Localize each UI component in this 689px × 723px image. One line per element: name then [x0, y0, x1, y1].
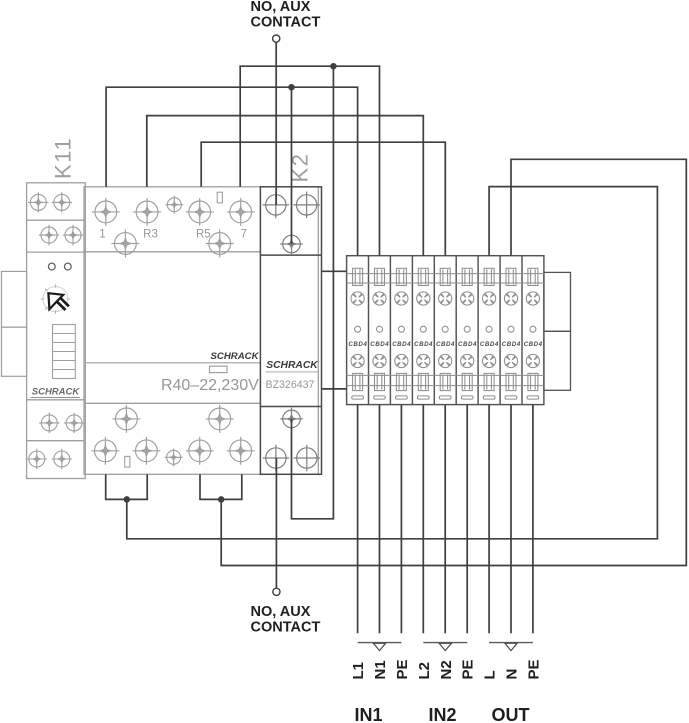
svg-text:7: 7: [241, 229, 247, 241]
wire: net L1 rail: [106, 87, 358, 256]
svg-text:CBD4: CBD4: [480, 341, 499, 348]
svg-text:L: L: [482, 670, 499, 679]
label: bottom NO, AUX CONTACT: [251, 604, 321, 636]
svg-text:1: 1: [99, 229, 105, 241]
contactor bottom terminal screws row 3: [112, 405, 233, 433]
wire: branch from L1 rail to K2 coil A1: [291, 87, 293, 244]
K11 terminal screws row 1: [28, 192, 72, 212]
contactor top small screw: [165, 196, 183, 214]
svg-text:L2: L2: [416, 662, 433, 680]
svg-text:CBD4: CBD4: [502, 341, 521, 348]
wire: terminal L to field: [488, 405, 490, 634]
K11 indicator window stack: [53, 325, 76, 379]
contactor bottom clip mark: [125, 456, 130, 467]
terminal block CBD4 #8 internals: [500, 268, 522, 399]
svg-text:OUT: OUT: [492, 705, 530, 723]
svg-text:CBD4: CBD4: [348, 341, 367, 348]
svg-text:PE: PE: [394, 659, 411, 679]
K2 label separator line: [266, 371, 319, 373]
terminal block CBD4 #7 internals: [478, 268, 500, 399]
svg-text:L1: L1: [350, 662, 367, 680]
svg-text:NO, AUX: NO, AUX: [251, 0, 311, 15]
wire: K2 to terminal X1-1 lower: [322, 388, 347, 390]
svg-text:PE: PE: [460, 659, 477, 679]
K11 terminal screws row 4: [27, 449, 72, 469]
wire: terminal PE3 to field: [532, 405, 534, 634]
junction on N1 rail: [331, 64, 336, 69]
wire: terminal N to field: [510, 405, 512, 634]
K2 bottom terminal screws: [263, 445, 320, 472]
junction on stub 2-4: [124, 497, 129, 502]
wire: net N2 rail: [201, 142, 445, 256]
terminal block CBD4 #6 internals: [456, 268, 478, 399]
svg-text:N: N: [504, 669, 521, 680]
node: top NO aux contact terminal: [273, 35, 280, 42]
wire: terminal PE1 to field: [400, 405, 402, 634]
terminal block CBD4 #1 internals: [347, 268, 369, 399]
wire: terminal N1 to field: [379, 405, 381, 634]
cable arrow 1: [373, 643, 385, 650]
cable arrow 3: [505, 643, 517, 650]
svg-text:PE: PE: [525, 659, 542, 679]
svg-text:SCHRACK: SCHRACK: [32, 387, 81, 398]
contactor top clip mark: [217, 192, 222, 203]
svg-text:CBD4: CBD4: [524, 341, 543, 348]
terminal assembly end brackets (right): [544, 272, 571, 390]
terminal block CBD4 #9 internals: [522, 268, 544, 399]
K11 SCHRACK brand label: [31, 387, 81, 398]
svg-text:CBD4: CBD4: [436, 341, 455, 348]
K2 upper coil screw: [280, 233, 303, 256]
cable group tick 1: [358, 642, 402, 644]
terminal block CBD4 #3 internals: [390, 268, 412, 399]
contactor top terminal screws row 1: [92, 198, 255, 226]
svg-text:CONTACT: CONTACT: [251, 15, 321, 31]
K11 manual actuator cursor icon: [41, 284, 71, 314]
svg-text:CONTACT: CONTACT: [251, 620, 321, 636]
wire: output L loop (inner right): [127, 187, 658, 539]
wire: output N loop (outer right): [221, 159, 686, 565]
wire: net L2 rail: [147, 116, 424, 256]
cable arrow 2: [439, 643, 451, 650]
wire: terminal L2 to field: [422, 405, 424, 634]
auxiliary contact module K11 body: [27, 183, 86, 479]
svg-text:R3: R3: [143, 229, 158, 241]
contactor label separator line: [86, 362, 260, 364]
K11 DIN rail tabs (left): [2, 271, 27, 376]
svg-text:BZ326437: BZ326437: [266, 379, 315, 391]
K2 top terminal screws: [263, 192, 320, 219]
terminal block CBD4 #2 internals: [369, 268, 391, 399]
cable group tick 2: [423, 642, 467, 644]
contactor top terminal screws row 2: [111, 230, 233, 258]
contactor small label box: [210, 366, 228, 372]
wire: contactor bottom jumper stub 2-4: [106, 474, 148, 499]
svg-text:R5: R5: [196, 229, 211, 241]
contactor K1 (R40-22,230V) body: [84, 187, 318, 475]
wire: branch from N1 rail down to K2 aux loop: [292, 66, 334, 519]
svg-text:R40–22,230V: R40–22,230V: [161, 377, 259, 394]
terminal block CBD4 #5 internals: [434, 268, 456, 399]
label: top NO, AUX CONTACT: [251, 0, 321, 31]
wire: K2 terminal 14 to bottom aux contact: [275, 458, 277, 588]
K11 terminal screws row 3: [39, 413, 84, 433]
svg-text:N1: N1: [372, 660, 389, 679]
svg-text:N2: N2: [438, 660, 455, 679]
wire: terminal N2 to field: [444, 405, 446, 634]
K11 terminal screws row 2: [39, 225, 83, 245]
svg-text:SCHRACK: SCHRACK: [266, 360, 319, 371]
svg-text:CBD4: CBD4: [392, 341, 411, 348]
K2 lower coil screw: [280, 408, 303, 431]
svg-text:CBD4: CBD4: [370, 341, 389, 348]
contactor bottom small screw: [165, 448, 183, 466]
wire: net N1-coil top rail: [240, 66, 379, 256]
svg-text:IN2: IN2: [428, 705, 456, 723]
wire: contactor bottom jumper stub 6-8: [200, 474, 242, 499]
contactor bottom terminal screws row 4: [91, 437, 254, 465]
contactor terminal pin labels 1 R3 R5 7: [99, 229, 247, 241]
aux contact block K2 body: [260, 187, 321, 475]
terminal block CBD4 #4 internals: [412, 268, 434, 399]
junction on L1 rail: [289, 85, 294, 90]
node: bottom NO aux contact terminal: [273, 588, 280, 595]
cable group tick 3: [489, 642, 533, 644]
wire: terminal L1 to field: [357, 405, 359, 634]
svg-text:NO, AUX: NO, AUX: [251, 604, 311, 620]
svg-text:K11: K11: [51, 137, 76, 179]
svg-text:CBD4: CBD4: [458, 341, 477, 348]
svg-text:CBD4: CBD4: [414, 341, 433, 348]
svg-text:SCHRACK: SCHRACK: [211, 351, 260, 362]
wire: terminal PE2 to field: [466, 405, 468, 634]
K11 indicator circles: [48, 263, 71, 270]
terminal block assembly X1 outline: [347, 256, 544, 405]
wire: top aux contact to K2 terminal 13: [275, 42, 277, 205]
junction on stub 6-8: [219, 497, 224, 502]
svg-text:IN1: IN1: [354, 705, 382, 723]
wire: K2 to terminal X1-1 upper: [322, 270, 347, 272]
